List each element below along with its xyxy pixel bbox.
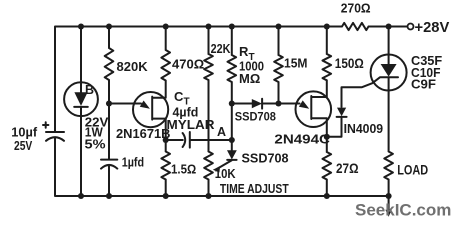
svg-text:SeekIC.com: SeekIC.com: [355, 201, 451, 220]
svg-text:B: B: [85, 83, 94, 97]
svg-text:27Ω: 27Ω: [336, 161, 359, 176]
svg-text:LOAD: LOAD: [397, 162, 428, 177]
svg-text:15M: 15M: [284, 56, 308, 71]
svg-text:820K: 820K: [117, 59, 149, 74]
svg-text:1µfd: 1µfd: [122, 155, 144, 170]
svg-text:150Ω: 150Ω: [335, 56, 364, 71]
svg-text:R: R: [239, 44, 249, 59]
svg-text:TIME ADJUST: TIME ADJUST: [220, 182, 289, 196]
svg-text:SSD708: SSD708: [235, 110, 276, 124]
svg-text:SSD708: SSD708: [242, 152, 289, 166]
svg-text:+28V: +28V: [415, 20, 450, 36]
svg-text:C: C: [174, 89, 184, 104]
svg-text:2N1671B: 2N1671B: [116, 127, 171, 141]
svg-text:A: A: [217, 125, 226, 139]
svg-text:25V: 25V: [14, 138, 33, 153]
svg-text:MYLAR: MYLAR: [167, 118, 215, 132]
svg-text:10K: 10K: [215, 167, 236, 181]
svg-text:2N494C: 2N494C: [274, 132, 330, 147]
svg-text:22K: 22K: [211, 42, 231, 56]
svg-text:470Ω: 470Ω: [172, 57, 204, 72]
svg-text:IN4009: IN4009: [344, 122, 384, 136]
svg-text:C9F: C9F: [411, 76, 436, 91]
svg-text:MΩ: MΩ: [239, 71, 260, 86]
svg-text:270Ω: 270Ω: [341, 1, 371, 16]
svg-text:5%: 5%: [85, 136, 106, 151]
svg-text:1.5Ω: 1.5Ω: [171, 162, 196, 177]
